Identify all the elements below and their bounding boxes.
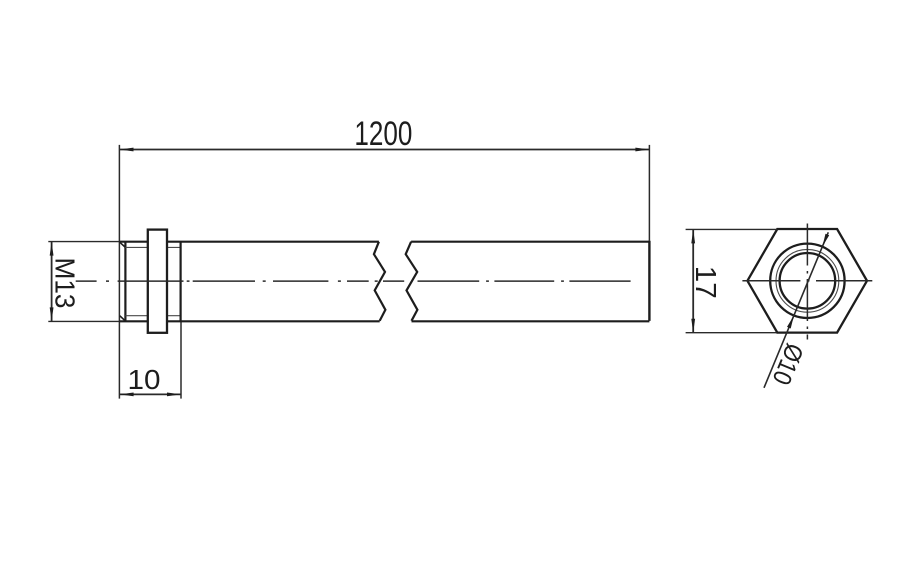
arrow M13 bottom (50, 307, 54, 321)
extension line left (for 1200 and 10 dims) (118, 145, 120, 399)
rod right end face (648, 241, 650, 321)
arrow 1200 right (635, 148, 649, 152)
arrow 17 top (691, 230, 695, 244)
hexagon vertical center line (806, 224, 808, 340)
hexagon horizontal center line (742, 280, 872, 282)
rod left chamfer end line (124, 242, 126, 322)
rod top outline (right of break) (411, 241, 649, 243)
arrow M13 top (50, 242, 54, 256)
svg-text:M13: M13 (50, 258, 81, 309)
break zigzag right (406, 242, 418, 321)
chamfer diagonal bottom (120, 316, 126, 321)
thread minor diameter line top (125, 246, 180, 248)
arrow 10 right (167, 393, 181, 397)
break zigzag left (374, 242, 386, 321)
outer circle (770, 244, 844, 318)
dimension 10 line (120, 393, 181, 395)
arrow 17 bottom (691, 319, 695, 333)
thread end line (180, 242, 182, 322)
arrow 10 left (120, 393, 134, 397)
thread minor diameter line bottom (125, 315, 180, 317)
svg-text:10: 10 (128, 364, 161, 395)
thin thread circle (776, 249, 839, 312)
leader arrow lower (tip on outer circle, pointing inward) (787, 316, 794, 329)
leader arrow upper (tip on outer circle, pointing inward) (822, 234, 829, 247)
extension line for 10 dim right (180, 321, 182, 398)
rod bottom outline (left of break) (119, 320, 379, 322)
hexagon end view (747, 229, 867, 333)
leader line for diameter 10 (764, 232, 828, 387)
dimension 17 line (692, 229, 694, 332)
extension lines for M13 dim (48, 241, 119, 243)
center line of rod (76, 280, 631, 282)
collar (148, 230, 167, 333)
svg-text:1200: 1200 (354, 115, 412, 153)
rod top outline (left of break) (119, 241, 379, 243)
chamfer diagonal top (120, 242, 126, 247)
rod bottom outline (right of break) (412, 320, 650, 322)
extension line right (for 1200 dim) (648, 145, 650, 241)
dimension M13 line (51, 242, 53, 322)
dimension 1200 line (120, 149, 650, 151)
svg-text:17: 17 (689, 266, 721, 299)
extension lines for 17 dim (686, 228, 778, 230)
inner circle (780, 253, 836, 309)
arrow 1200 left (120, 148, 134, 152)
